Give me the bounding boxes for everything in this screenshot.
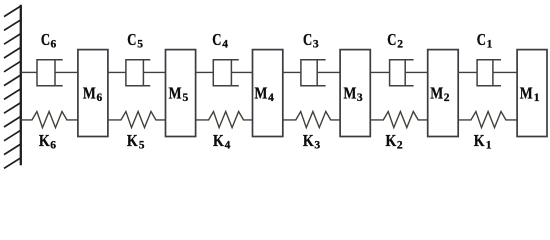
damper C5 piston: [142, 60, 144, 86]
svg-text:K: K: [213, 131, 224, 150]
wire: damper C1 piston to mass M1: [493, 71, 517, 73]
spring K4: [196, 112, 253, 128]
damper C3 cylinder: [301, 60, 326, 86]
label M3: [344, 84, 363, 105]
label K3: [303, 131, 321, 152]
svg-text:1: 1: [486, 140, 492, 152]
damper C2 piston: [404, 60, 406, 86]
svg-text:5: 5: [139, 140, 145, 152]
wire: wall to damper C6 cylinder: [21, 71, 37, 73]
svg-text:2: 2: [397, 39, 403, 51]
svg-text:3: 3: [314, 140, 320, 152]
wire: mass M3 to damper C2 cylinder: [370, 71, 389, 73]
svg-text:K: K: [127, 131, 138, 150]
svg-text:C: C: [212, 30, 221, 49]
svg-text:1: 1: [487, 39, 493, 51]
svg-text:6: 6: [50, 140, 56, 152]
svg-text:K: K: [386, 131, 397, 150]
svg-text:K: K: [474, 131, 485, 150]
label M2: [430, 84, 450, 105]
label C1: [477, 30, 493, 51]
svg-text:M: M: [520, 84, 533, 103]
label M4: [255, 84, 275, 105]
svg-text:M: M: [255, 84, 268, 103]
damper C4 piston: [230, 60, 232, 86]
label K5: [127, 131, 145, 152]
spring K5: [108, 112, 166, 128]
damper C4 cylinder: [213, 60, 239, 86]
svg-text:4: 4: [268, 92, 274, 104]
mass M4: [253, 50, 283, 137]
damper C5 cylinder: [126, 60, 150, 86]
wall hatching: [4, 6, 21, 168]
label M1: [520, 84, 540, 105]
wire: mass M2 to damper C1 cylinder: [458, 71, 477, 73]
wire: damper C3 piston to mass M3: [317, 71, 340, 73]
svg-text:M: M: [169, 84, 182, 103]
wire: damper C4 piston to mass M4: [231, 71, 252, 73]
wire: damper C2 piston to mass M2: [405, 71, 428, 73]
label K6: [39, 131, 56, 152]
svg-text:M: M: [344, 84, 357, 103]
svg-text:K: K: [303, 131, 314, 150]
label C4: [212, 30, 228, 51]
spring K1: [458, 112, 517, 128]
label K2: [386, 131, 403, 152]
mass M6: [78, 50, 108, 137]
spring K3: [283, 112, 340, 128]
damper C3 piston: [316, 60, 318, 86]
damper C6 piston: [54, 60, 56, 86]
svg-text:4: 4: [225, 140, 231, 152]
svg-text:1: 1: [534, 92, 540, 104]
label M5: [169, 84, 189, 105]
wire: mass M6 to damper C5 cylinder: [108, 71, 126, 73]
mass M1: [517, 50, 547, 137]
svg-text:6: 6: [97, 92, 103, 104]
svg-text:2: 2: [397, 140, 403, 152]
label C3: [303, 30, 319, 51]
wire: mass M4 to damper C3 cylinder: [283, 71, 301, 73]
label K1: [474, 131, 492, 152]
svg-text:3: 3: [357, 92, 363, 104]
svg-text:C: C: [41, 30, 50, 49]
damper C2 cylinder: [390, 60, 414, 86]
wire: mass M5 to damper C4 cylinder: [196, 71, 214, 73]
svg-text:2: 2: [444, 92, 450, 104]
label M6: [83, 84, 103, 105]
label K4: [213, 131, 231, 152]
wall (fixed support) vertical line: [20, 5, 22, 165]
spring K2: [370, 112, 427, 128]
svg-text:6: 6: [51, 39, 57, 51]
mass M2: [428, 50, 459, 137]
mass M3: [340, 50, 370, 137]
svg-text:5: 5: [183, 92, 189, 104]
label C2: [387, 30, 403, 51]
svg-text:3: 3: [313, 39, 319, 51]
label C6: [41, 30, 57, 51]
spring K6: [21, 112, 78, 128]
damper C6 cylinder: [37, 60, 63, 86]
svg-text:C: C: [387, 30, 396, 49]
label C5: [127, 30, 143, 51]
svg-text:C: C: [477, 30, 486, 49]
svg-text:5: 5: [137, 39, 143, 51]
wire: damper C5 piston to mass M5: [143, 71, 165, 73]
svg-text:K: K: [39, 131, 50, 150]
svg-text:C: C: [127, 30, 136, 49]
mass M5: [166, 50, 196, 137]
svg-text:M: M: [430, 84, 443, 103]
svg-text:C: C: [303, 30, 312, 49]
wire: damper C6 piston to mass M6: [55, 71, 78, 73]
damper C1 piston: [492, 60, 494, 86]
damper C1 cylinder: [477, 60, 501, 86]
svg-text:4: 4: [222, 39, 228, 51]
svg-text:M: M: [83, 84, 96, 103]
